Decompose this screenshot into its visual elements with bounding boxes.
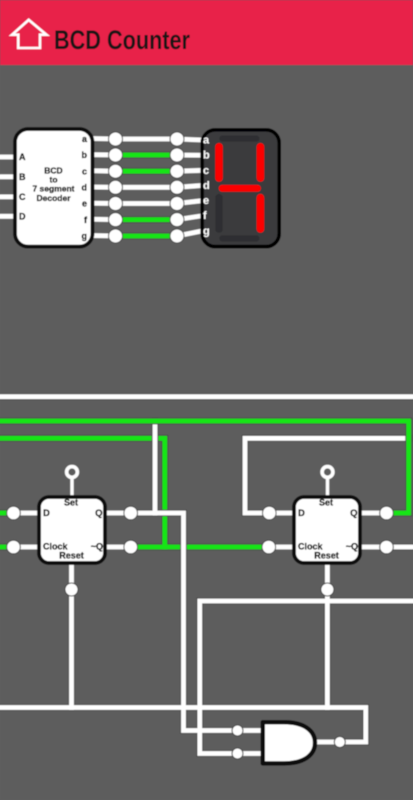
junction: row d left bbox=[109, 180, 123, 194]
junction: U2 ~Q pin bbox=[124, 540, 138, 554]
svg-text:a: a bbox=[203, 134, 210, 146]
wire: U3 D input loop left-up-right to x=409 bbox=[245, 438, 409, 513]
svg-text:d: d bbox=[82, 183, 88, 193]
pin stub: U3 ~Q output bbox=[359, 545, 387, 550]
pin stub: U2 Q output bbox=[104, 511, 131, 516]
svg-text:d: d bbox=[203, 180, 210, 192]
pin stub: U3 Q output bbox=[359, 511, 387, 516]
wire: segment row a, U1.a to DS1.a (low, white) bbox=[92, 139, 202, 141]
pin stub: U2 Reset input bbox=[69, 562, 74, 590]
junction: U3 D pin bbox=[263, 506, 277, 520]
svg-text:~Q: ~Q bbox=[346, 541, 358, 551]
junction: row e left bbox=[109, 197, 123, 211]
svg-text:D: D bbox=[298, 508, 305, 519]
wire: U3 Reset drop from node to reset line bbox=[325, 590, 330, 708]
junction: U2 Reset pin bbox=[65, 583, 78, 596]
junction: U2 D pin bbox=[7, 506, 21, 520]
junction: U5 input A pin bbox=[232, 725, 243, 736]
svg-text:f: f bbox=[203, 210, 207, 222]
junction: U3 Reset pin bbox=[321, 583, 334, 596]
wire: segment row g, U1.g to DS1.g (high, green between junctions) bbox=[92, 231, 202, 236]
svg-text:C: C bbox=[19, 192, 26, 202]
svg-text:A: A bbox=[19, 152, 26, 162]
pin stub: U5 input B bbox=[238, 751, 264, 756]
junction: row f left bbox=[109, 213, 123, 227]
pin stub: U2 D input bbox=[14, 511, 41, 516]
wire: green net W2 from left edge y=438 down at x=165 to clock row, and clock row run U2.~Q to U3.Clock bbox=[0, 438, 269, 547]
junction: U3 ~Q pin bbox=[380, 540, 394, 554]
wire: segment row f, U1.f to DS1.f (high, green between junctions) bbox=[92, 216, 202, 220]
junction: U2 Q pin bbox=[124, 506, 138, 520]
wire: U2 Reset drop from node to reset line bbox=[69, 590, 74, 708]
pin stub: U3 Clock input bbox=[269, 545, 295, 550]
AND gate U5 bbox=[263, 722, 315, 763]
junction: row f right bbox=[170, 213, 184, 227]
header bar bbox=[0, 0, 413, 65]
pin stub: U1 input A from left edge bbox=[0, 155, 20, 160]
svg-text:Set: Set bbox=[64, 497, 78, 507]
junction: row d right bbox=[170, 180, 184, 194]
junction: row b left bbox=[109, 148, 123, 162]
pin stub: U2 Clock input bbox=[14, 545, 41, 550]
pin stub: U5 input A bbox=[238, 728, 264, 733]
wire: segment row e, U1.e to DS1.e (low, white) bbox=[92, 201, 202, 204]
svg-text:e: e bbox=[203, 195, 209, 207]
wire: reset line y=707 from left edge to gate U5 output riser bbox=[0, 708, 366, 743]
junction: row b right bbox=[170, 148, 184, 162]
D flip-flop U3 bbox=[294, 497, 360, 563]
open pin: U2 Set (unconnected) bbox=[67, 467, 78, 478]
svg-text:b: b bbox=[203, 150, 210, 162]
svg-text:e: e bbox=[82, 199, 87, 209]
svg-text:Reset: Reset bbox=[314, 551, 339, 561]
segment b (lit) bbox=[257, 143, 265, 182]
wire: segment row d, U1.d to DS1.d (low, white) bbox=[92, 186, 202, 188]
pin stub: U5 output bbox=[314, 740, 340, 745]
wire: stub from bus W3 (y=421) down to U2 Q row at x=155 bbox=[153, 421, 158, 513]
wire: net W4 from right edge y=601 down at x=200 to gate U5 input B bbox=[200, 601, 413, 754]
pin stub: U3 Set input bbox=[326, 479, 329, 499]
junction: row g right bbox=[170, 229, 184, 243]
wire: U3 ~Q output to right edge bbox=[387, 545, 413, 550]
junction: row c right bbox=[170, 164, 184, 178]
pin stub: U1 input C from left edge bbox=[0, 194, 20, 199]
wire: green bus W3 at y=421 full width with drop at x=409 to U3 Q output bbox=[0, 421, 409, 513]
junction: U3 Q pin bbox=[380, 506, 394, 520]
svg-text:g: g bbox=[82, 231, 88, 241]
wire: green stub from left edge to U2 Clock node bbox=[0, 544, 14, 551]
pin stub: U2 Set input bbox=[70, 479, 73, 499]
pin stub: U3 D input bbox=[269, 511, 295, 516]
segment c (lit) bbox=[257, 194, 265, 233]
junction: U3 Clock pin bbox=[262, 540, 276, 554]
segment g (lit) bbox=[219, 185, 261, 192]
wire: horizontal bus net W1 at y=396 spanning full width bbox=[0, 393, 413, 400]
junction: row a right bbox=[170, 132, 184, 146]
svg-text:g: g bbox=[203, 225, 210, 237]
wire: green stub from left edge to U2 D node bbox=[0, 510, 14, 517]
pin stub: U2 ~Q output bbox=[104, 545, 131, 550]
pin stub: U1 input B from left edge bbox=[0, 174, 20, 179]
pin stub: U1 input D from left edge bbox=[0, 214, 20, 219]
pin stub: U3 Reset input bbox=[325, 562, 330, 590]
wire: segment row c, U1.c to DS1.c (high, green between junctions) bbox=[92, 168, 202, 174]
junction: U5 input B pin bbox=[232, 748, 243, 759]
svg-text:Reset: Reset bbox=[59, 551, 84, 561]
svg-text:c: c bbox=[203, 165, 209, 177]
svg-text:Decoder: Decoder bbox=[36, 193, 71, 203]
wire: white net outlines (drawn first so cores merge seamlessly) bbox=[0, 421, 413, 754]
segment d (off) bbox=[219, 235, 259, 241]
BCD to 7-segment decoder U1 bbox=[15, 129, 93, 247]
segment e (off) bbox=[215, 194, 223, 233]
svg-text:D: D bbox=[19, 212, 26, 222]
wire: segment row b, U1.b to DS1.b (high, green between junctions) bbox=[92, 152, 202, 157]
D flip-flop U2 bbox=[39, 497, 105, 563]
svg-text:Q: Q bbox=[95, 508, 102, 519]
junction: row c left bbox=[109, 164, 123, 178]
wire: U2 Q output run right then down to gate U5 input A bbox=[131, 513, 238, 731]
junction: row e right bbox=[170, 197, 184, 211]
svg-text:D: D bbox=[43, 508, 50, 519]
junction: row g left bbox=[109, 229, 123, 243]
svg-text:c: c bbox=[82, 166, 87, 176]
svg-text:B: B bbox=[19, 172, 26, 182]
svg-text:Q: Q bbox=[350, 508, 357, 519]
svg-text:Set: Set bbox=[319, 497, 333, 507]
open pin: U3 Set (unconnected) bbox=[322, 467, 333, 478]
segment f (lit) bbox=[215, 143, 223, 182]
junction: U2 Clock pin bbox=[7, 540, 21, 554]
seven segment display DS1 bbox=[202, 130, 279, 247]
junction: U5 output pin bbox=[334, 737, 345, 748]
svg-text:BCD Counter: BCD Counter bbox=[54, 25, 190, 55]
segment a (off) bbox=[219, 136, 259, 142]
junction: row a left bbox=[109, 132, 123, 146]
home icon bbox=[12, 20, 46, 48]
svg-text:b: b bbox=[82, 150, 88, 160]
svg-text:~Q: ~Q bbox=[91, 541, 103, 551]
